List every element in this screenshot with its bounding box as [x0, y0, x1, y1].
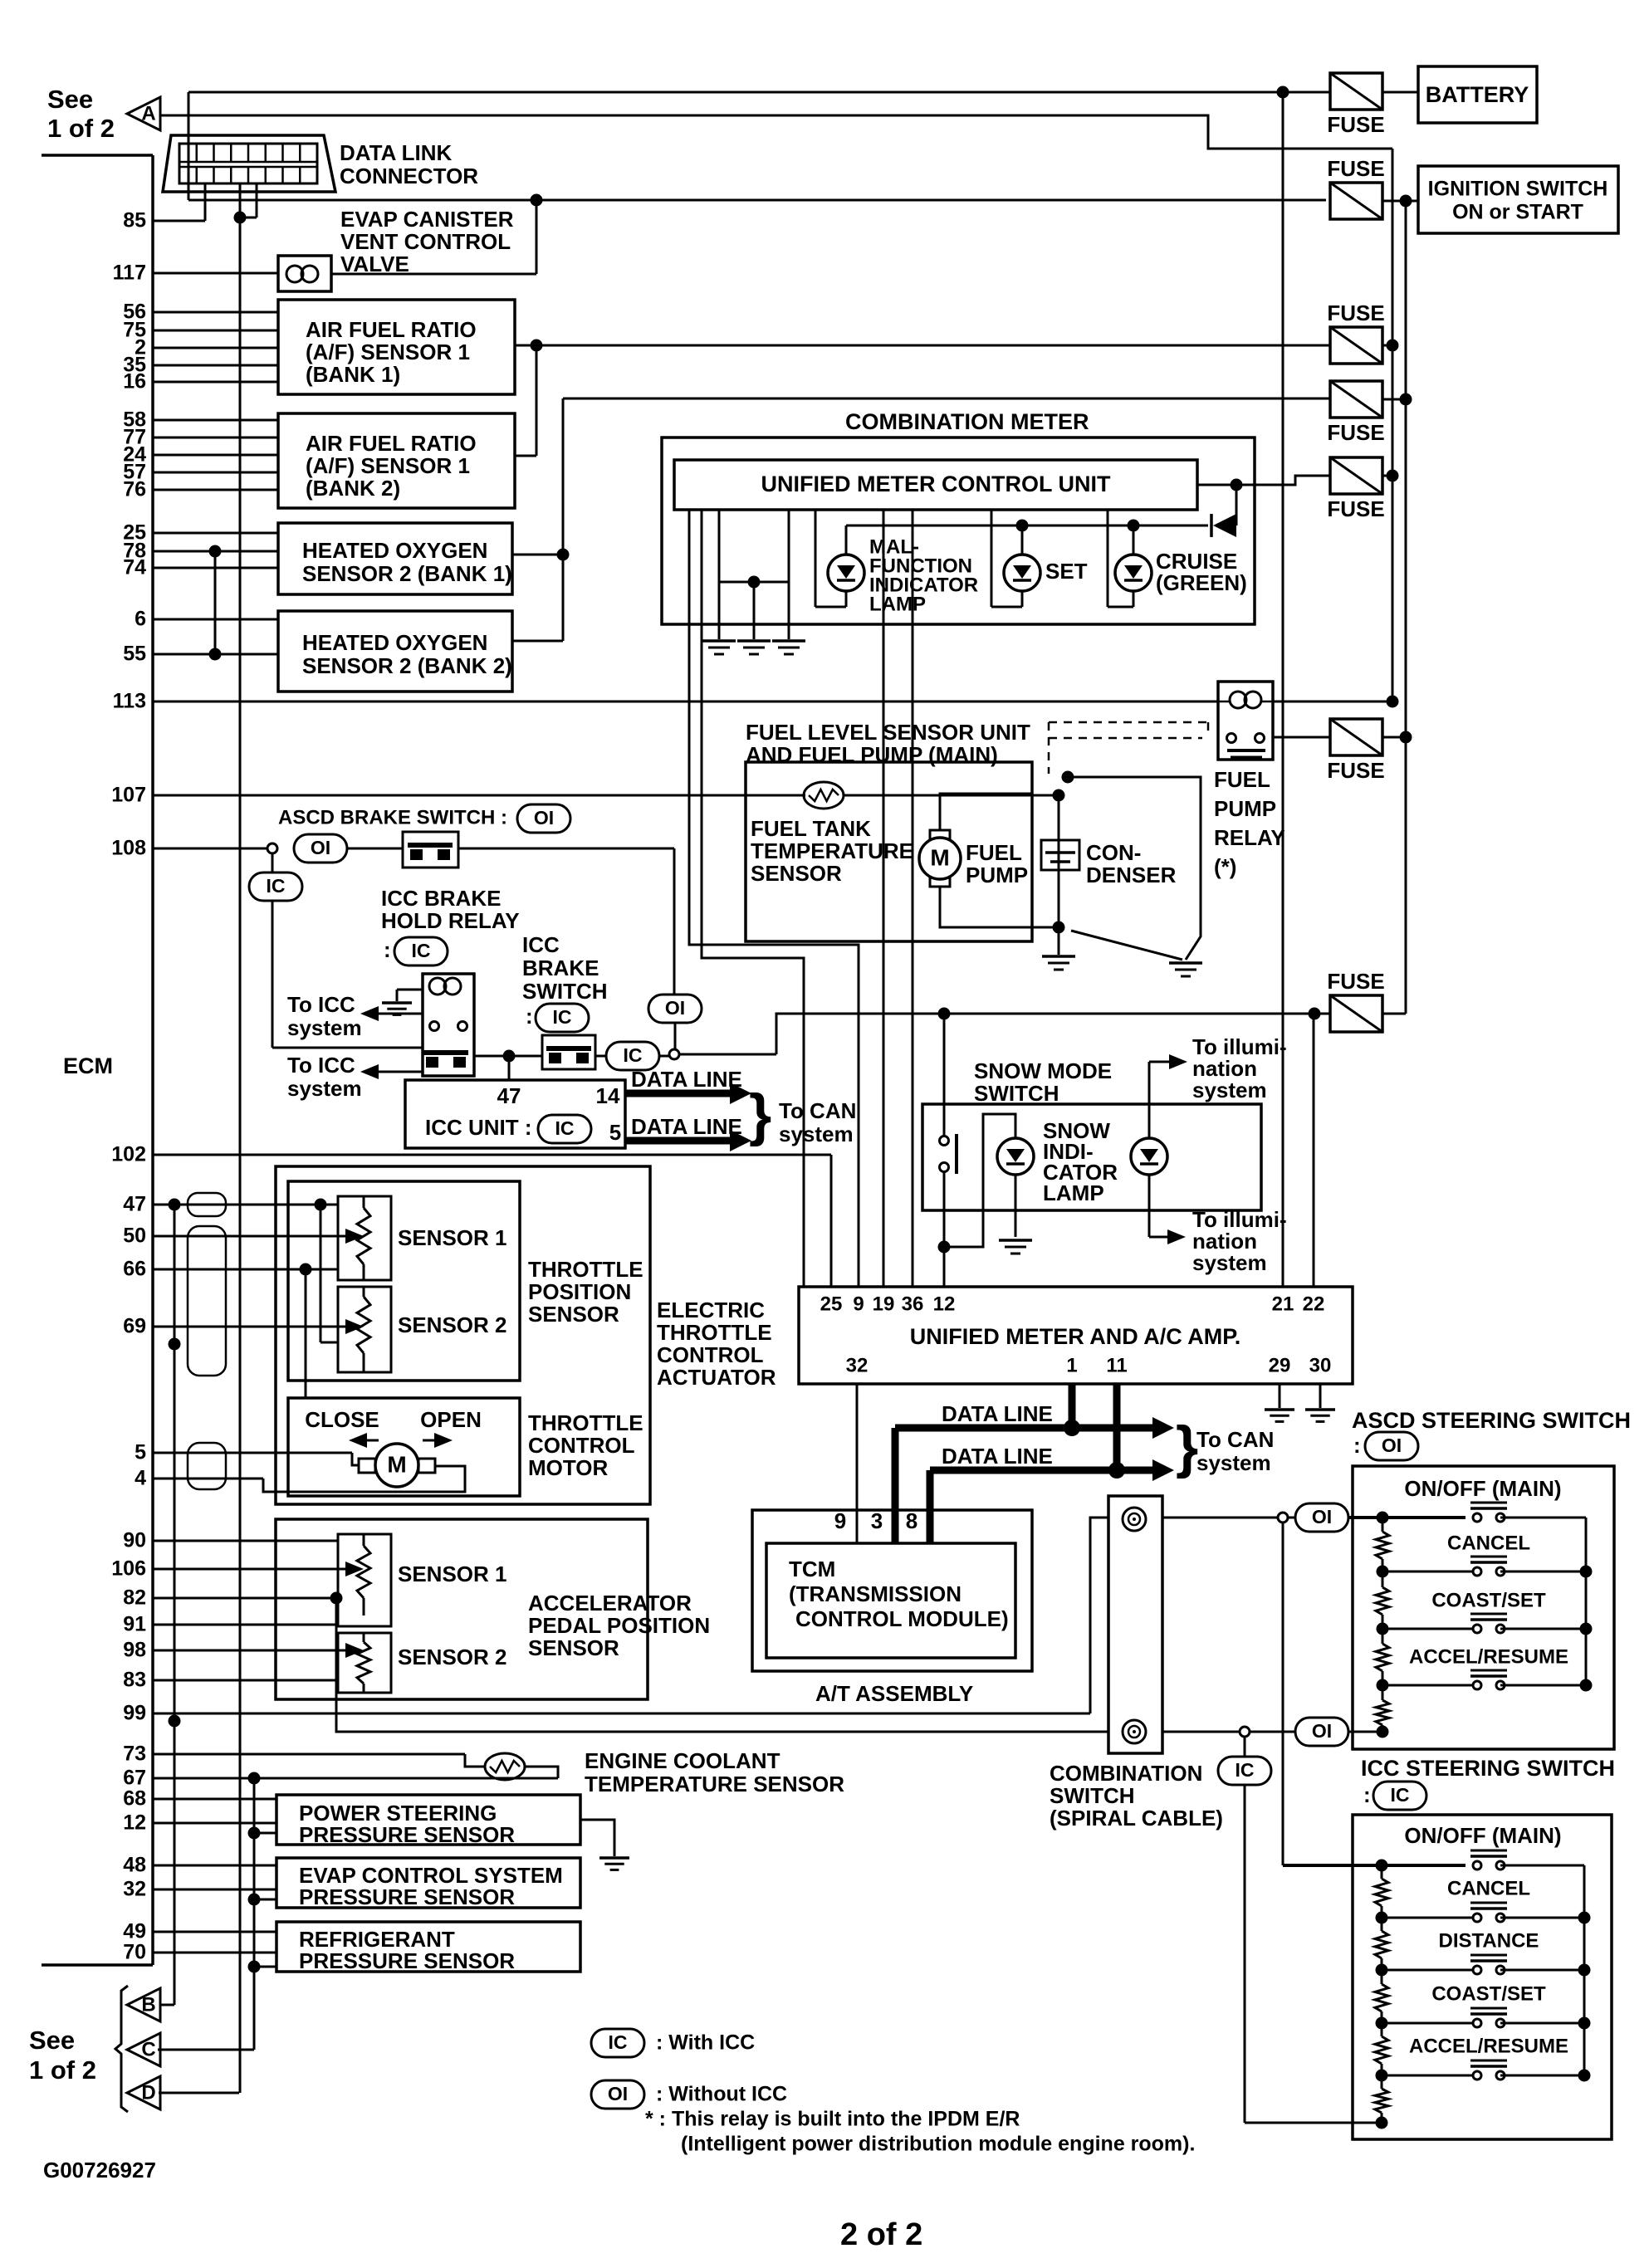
- svg-text:6: 6: [135, 608, 146, 631]
- svg-text:36: 36: [902, 1293, 924, 1315]
- svg-text:system: system: [1192, 1250, 1267, 1275]
- svg-text:MOTOR: MOTOR: [528, 1455, 609, 1480]
- svg-text:85: 85: [123, 209, 146, 232]
- svg-text:ACCEL/RESUME: ACCEL/RESUME: [1409, 2035, 1568, 2057]
- svg-text:SENSOR 2 (BANK 2): SENSOR 2 (BANK 2): [302, 653, 512, 678]
- svg-text:RELAY: RELAY: [1214, 825, 1285, 850]
- svg-text:VALVE: VALVE: [340, 252, 409, 276]
- svg-text:THROTTLE: THROTTLE: [528, 1410, 643, 1435]
- svg-text:IC: IC: [624, 1044, 643, 1066]
- svg-text:ON/OFF (MAIN): ON/OFF (MAIN): [1404, 1823, 1561, 1848]
- svg-text:AIR FUEL RATIO: AIR FUEL RATIO: [306, 431, 477, 456]
- svg-text:OI: OI: [1312, 1720, 1332, 1742]
- svg-text:47: 47: [123, 1193, 146, 1216]
- svg-text:: With ICC: : With ICC: [656, 2031, 755, 2055]
- svg-text:108: 108: [111, 837, 146, 860]
- svg-text:PRESSURE SENSOR: PRESSURE SENSOR: [299, 1822, 515, 1847]
- svg-text:HOLD RELAY: HOLD RELAY: [381, 908, 520, 933]
- svg-text:IC: IC: [267, 875, 286, 897]
- svg-text:ASCD BRAKE SWITCH :: ASCD BRAKE SWITCH :: [278, 806, 507, 829]
- svg-text:TCM: TCM: [789, 1557, 835, 1581]
- svg-text:CANCEL: CANCEL: [1447, 1877, 1530, 1899]
- svg-text:system: system: [779, 1122, 854, 1146]
- svg-text:ON/OFF (MAIN): ON/OFF (MAIN): [1404, 1476, 1561, 1501]
- svg-text:ICC STEERING SWITCH: ICC STEERING SWITCH: [1361, 1756, 1615, 1781]
- svg-text:BRAKE: BRAKE: [522, 956, 599, 980]
- svg-text:THROTTLE: THROTTLE: [657, 1320, 772, 1345]
- svg-text:19: 19: [873, 1293, 895, 1315]
- svg-text:EVAP CANISTER: EVAP CANISTER: [340, 207, 514, 232]
- svg-text:FUEL LEVEL SENSOR UNIT: FUEL LEVEL SENSOR UNIT: [746, 720, 1030, 745]
- svg-text:PUMP: PUMP: [1214, 796, 1276, 821]
- svg-text:ECM: ECM: [63, 1053, 113, 1078]
- svg-text:FUSE: FUSE: [1327, 156, 1384, 181]
- svg-text:32: 32: [846, 1354, 869, 1376]
- svg-text:SENSOR 1: SENSOR 1: [398, 1225, 507, 1250]
- svg-text:IC: IC: [1391, 1784, 1410, 1806]
- svg-text:99: 99: [123, 1702, 146, 1725]
- svg-text:FUEL: FUEL: [1214, 767, 1270, 792]
- svg-text:5: 5: [135, 1441, 146, 1464]
- svg-text:BATTERY: BATTERY: [1426, 82, 1529, 107]
- svg-text:G00726927: G00726927: [43, 2158, 156, 2182]
- svg-text:30: 30: [1309, 1354, 1332, 1376]
- svg-text:FUEL TANK: FUEL TANK: [751, 816, 871, 841]
- svg-text:A: A: [141, 102, 155, 125]
- svg-text:69: 69: [123, 1315, 146, 1338]
- svg-text:SENSOR: SENSOR: [528, 1635, 619, 1660]
- svg-text:73: 73: [123, 1743, 146, 1766]
- svg-text:SENSOR 2: SENSOR 2: [398, 1645, 507, 1669]
- svg-text:To ICC: To ICC: [287, 992, 355, 1017]
- svg-text:PUMP: PUMP: [966, 863, 1028, 887]
- svg-text:22: 22: [1303, 1293, 1325, 1315]
- svg-text:SWITCH: SWITCH: [522, 979, 608, 1004]
- svg-text:47: 47: [497, 1083, 521, 1108]
- svg-text:12: 12: [123, 1811, 146, 1835]
- svg-text:}: }: [749, 1082, 771, 1146]
- svg-text:system: system: [287, 1076, 362, 1101]
- svg-text:To CAN: To CAN: [1196, 1427, 1274, 1452]
- svg-text:OI: OI: [665, 997, 685, 1019]
- svg-text:16: 16: [123, 370, 146, 393]
- svg-text:2 of 2: 2 of 2: [840, 2217, 922, 2252]
- svg-text:FUSE: FUSE: [1327, 758, 1384, 783]
- svg-text:CON-: CON-: [1086, 840, 1141, 865]
- svg-text:25: 25: [820, 1293, 843, 1315]
- svg-text:98: 98: [123, 1639, 146, 1662]
- svg-text:UNIFIED METER CONTROL UNIT: UNIFIED METER CONTROL UNIT: [761, 472, 1111, 496]
- svg-text:ICC UNIT :: ICC UNIT :: [425, 1115, 532, 1140]
- svg-text:DATA LINE: DATA LINE: [631, 1067, 742, 1092]
- svg-text:5: 5: [609, 1120, 621, 1145]
- svg-text:82: 82: [123, 1586, 146, 1610]
- svg-text:76: 76: [123, 478, 146, 501]
- svg-text:11: 11: [1106, 1354, 1127, 1376]
- svg-text:32: 32: [123, 1878, 146, 1901]
- svg-text:DATA LINE: DATA LINE: [631, 1114, 742, 1139]
- svg-text:B: B: [141, 1993, 155, 2016]
- svg-text:SNOW MODE: SNOW MODE: [974, 1058, 1112, 1083]
- svg-text:OI: OI: [1382, 1435, 1402, 1456]
- svg-text:SENSOR: SENSOR: [528, 1302, 619, 1327]
- svg-text:SWITCH: SWITCH: [1050, 1783, 1135, 1808]
- svg-text:SENSOR 2: SENSOR 2: [398, 1312, 507, 1337]
- svg-text:ACCEL/RESUME: ACCEL/RESUME: [1409, 1645, 1568, 1668]
- svg-text:CONTROL: CONTROL: [657, 1342, 764, 1367]
- svg-text:66: 66: [123, 1258, 146, 1281]
- svg-text:OI: OI: [534, 807, 554, 829]
- svg-text:COAST/SET: COAST/SET: [1431, 1589, 1546, 1611]
- svg-text:LAMP: LAMP: [1043, 1180, 1104, 1205]
- svg-text:HEATED OXYGEN: HEATED OXYGEN: [302, 630, 487, 655]
- svg-text:(BANK 2): (BANK 2): [306, 476, 400, 501]
- svg-text:21: 21: [1272, 1293, 1294, 1315]
- svg-text:D: D: [141, 2081, 155, 2104]
- svg-text:106: 106: [111, 1557, 146, 1581]
- svg-text:FUSE: FUSE: [1327, 496, 1384, 521]
- svg-text:* : This relay is built into t: * : This relay is built into the IPDM E/…: [645, 2108, 1020, 2131]
- svg-text:SET: SET: [1045, 559, 1088, 584]
- svg-text:107: 107: [111, 784, 146, 807]
- svg-text:90: 90: [123, 1529, 146, 1552]
- svg-text:67: 67: [123, 1767, 146, 1790]
- svg-text:OI: OI: [608, 2083, 628, 2104]
- svg-text:70: 70: [123, 1941, 146, 1964]
- svg-text:(SPIRAL CABLE): (SPIRAL CABLE): [1050, 1806, 1223, 1831]
- svg-text:COMBINATION METER: COMBINATION METER: [845, 409, 1089, 434]
- svg-text:(GREEN): (GREEN): [1156, 570, 1247, 595]
- svg-text:VENT CONTROL: VENT CONTROL: [340, 229, 511, 254]
- svg-text:(TRANSMISSION: (TRANSMISSION: [789, 1581, 962, 1606]
- svg-text:TEMPERATURE SENSOR: TEMPERATURE SENSOR: [585, 1772, 844, 1796]
- svg-text:To ICC: To ICC: [287, 1053, 355, 1078]
- svg-text:4: 4: [135, 1467, 146, 1490]
- svg-text:IC: IC: [412, 940, 431, 961]
- svg-text::: :: [1353, 1433, 1361, 1458]
- svg-text:9: 9: [853, 1293, 864, 1315]
- svg-text:AIR FUEL RATIO: AIR FUEL RATIO: [306, 317, 477, 342]
- svg-text:ENGINE COOLANT: ENGINE COOLANT: [585, 1748, 780, 1773]
- svg-text:3: 3: [871, 1508, 883, 1533]
- svg-text:50: 50: [123, 1224, 146, 1248]
- svg-text:ICC BRAKE: ICC BRAKE: [381, 886, 501, 911]
- svg-text:48: 48: [123, 1854, 146, 1877]
- svg-text:OI: OI: [1312, 1506, 1332, 1527]
- svg-text:IC: IC: [555, 1117, 575, 1139]
- svg-text:TEMPERATURE: TEMPERATURE: [751, 838, 913, 863]
- svg-text:PRESSURE SENSOR: PRESSURE SENSOR: [299, 1884, 515, 1909]
- svg-text:IGNITION SWITCH: IGNITION SWITCH: [1428, 178, 1608, 201]
- svg-text:}: }: [1176, 1414, 1198, 1479]
- svg-text:CONTROL MODULE): CONTROL MODULE): [795, 1606, 1009, 1631]
- svg-text:M: M: [387, 1451, 406, 1477]
- svg-text:POSITION: POSITION: [528, 1279, 631, 1304]
- svg-text:system: system: [1196, 1450, 1271, 1475]
- svg-text:COMBINATION: COMBINATION: [1050, 1761, 1202, 1786]
- svg-text:117: 117: [113, 262, 146, 285]
- svg-text:SWITCH: SWITCH: [974, 1081, 1059, 1106]
- svg-text:FUSE: FUSE: [1327, 420, 1384, 445]
- svg-text:CANCEL: CANCEL: [1447, 1532, 1530, 1554]
- svg-text:LAMP: LAMP: [869, 593, 926, 615]
- svg-text:DENSER: DENSER: [1086, 863, 1177, 887]
- svg-text:74: 74: [123, 556, 146, 579]
- svg-text:(Intelligent power distributio: (Intelligent power distribution module e…: [681, 2133, 1195, 2156]
- svg-text:8: 8: [906, 1508, 917, 1533]
- svg-text:ON or START: ON or START: [1452, 201, 1583, 224]
- svg-text:(BANK 1): (BANK 1): [306, 362, 400, 387]
- svg-text:1: 1: [1066, 1354, 1077, 1376]
- svg-text:C: C: [141, 2038, 155, 2060]
- svg-text:OI: OI: [311, 837, 330, 858]
- svg-text:FUSE: FUSE: [1327, 301, 1384, 325]
- svg-text:IC: IC: [609, 2031, 628, 2053]
- svg-text:(*): (*): [1214, 854, 1236, 879]
- svg-text:IC: IC: [1236, 1759, 1255, 1781]
- svg-text:91: 91: [123, 1613, 146, 1636]
- svg-text:OPEN: OPEN: [420, 1407, 482, 1432]
- svg-text:PEDAL POSITION: PEDAL POSITION: [528, 1613, 710, 1638]
- svg-text:system: system: [287, 1015, 362, 1040]
- svg-text:SENSOR: SENSOR: [751, 861, 842, 886]
- svg-text:SENSOR 2 (BANK 1): SENSOR 2 (BANK 1): [302, 561, 512, 586]
- svg-text:(A/F) SENSOR 1: (A/F) SENSOR 1: [306, 453, 470, 478]
- svg-text:See: See: [47, 85, 93, 114]
- svg-text:ELECTRIC: ELECTRIC: [657, 1298, 765, 1322]
- svg-text::: :: [384, 937, 391, 962]
- svg-text:ACTUATOR: ACTUATOR: [657, 1365, 776, 1390]
- svg-text:12: 12: [933, 1293, 956, 1315]
- svg-text:83: 83: [123, 1669, 146, 1692]
- svg-text:SENSOR 1: SENSOR 1: [398, 1562, 507, 1586]
- svg-text:PRESSURE SENSOR: PRESSURE SENSOR: [299, 1948, 515, 1973]
- svg-text:68: 68: [123, 1787, 146, 1811]
- svg-text:A/T ASSEMBLY: A/T ASSEMBLY: [815, 1681, 973, 1706]
- svg-text:49: 49: [123, 1920, 146, 1943]
- svg-text:1 of 2: 1 of 2: [29, 2055, 96, 2085]
- svg-text:See: See: [29, 2026, 75, 2055]
- svg-text:113: 113: [113, 690, 146, 713]
- svg-text:FUSE: FUSE: [1327, 112, 1384, 137]
- svg-text::: :: [1363, 1782, 1371, 1807]
- svg-text:To CAN: To CAN: [779, 1098, 856, 1123]
- svg-text::: :: [526, 1004, 533, 1029]
- svg-text:9: 9: [834, 1508, 846, 1533]
- svg-text:system: system: [1192, 1078, 1267, 1102]
- svg-text:IC: IC: [553, 1006, 572, 1028]
- svg-text:DATA LINE: DATA LINE: [942, 1444, 1053, 1469]
- svg-text:102: 102: [111, 1143, 146, 1166]
- svg-text:DISTANCE: DISTANCE: [1439, 1929, 1539, 1952]
- svg-text:CONNECTOR: CONNECTOR: [340, 164, 478, 188]
- svg-text:UNIFIED METER AND A/C AMP.: UNIFIED METER AND A/C AMP.: [910, 1324, 1241, 1349]
- svg-text:CONTROL: CONTROL: [528, 1433, 635, 1458]
- svg-text:DATA LINK: DATA LINK: [340, 140, 452, 165]
- svg-text:ACCELERATOR: ACCELERATOR: [528, 1591, 692, 1615]
- svg-text:THROTTLE: THROTTLE: [528, 1257, 643, 1282]
- svg-text:29: 29: [1269, 1354, 1291, 1376]
- svg-text:CLOSE: CLOSE: [305, 1407, 379, 1432]
- svg-text:HEATED OXYGEN: HEATED OXYGEN: [302, 538, 487, 563]
- svg-text:ASCD STEERING SWITCH: ASCD STEERING SWITCH: [1352, 1408, 1631, 1433]
- svg-text:ICC: ICC: [522, 932, 560, 957]
- svg-text:M: M: [930, 844, 949, 870]
- svg-text:COAST/SET: COAST/SET: [1431, 1982, 1546, 2005]
- svg-text:14: 14: [596, 1083, 620, 1108]
- svg-text:1 of 2: 1 of 2: [47, 114, 115, 143]
- svg-text:: Without ICC: : Without ICC: [656, 2083, 787, 2106]
- svg-text:FUEL: FUEL: [966, 840, 1022, 865]
- svg-text:55: 55: [123, 643, 146, 666]
- svg-text:FUSE: FUSE: [1327, 969, 1384, 994]
- svg-text:(A/F) SENSOR 1: (A/F) SENSOR 1: [306, 340, 470, 364]
- svg-text:DATA LINE: DATA LINE: [942, 1401, 1053, 1426]
